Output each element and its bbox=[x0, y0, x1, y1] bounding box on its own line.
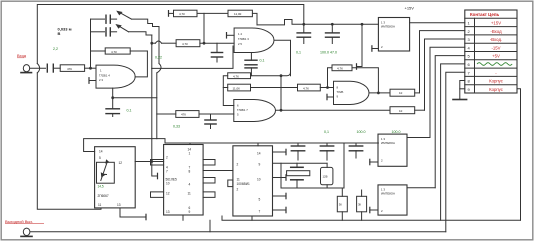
svg-text:2: 2 bbox=[166, 156, 168, 160]
svg-text:1 4: 1 4 bbox=[238, 32, 242, 36]
wire IC U4 right loops to IC U5 bbox=[203, 160, 215, 166]
IC U5 right pin wire to crystal row bbox=[273, 162, 328, 164]
resistor R12 vertical bbox=[357, 196, 367, 212]
wire R3 to gate U1.2 lower input bbox=[199, 113, 234, 115]
wire R8 right lead down to output node bbox=[352, 68, 378, 93]
wire IC U4 to IC U5 mid bbox=[203, 170, 233, 172]
wire R5 right to gate U2.1 output bbox=[251, 72, 291, 76]
resistor R14 top-left with bar stub bbox=[168, 11, 170, 17]
riser hop over y68.4 wire bbox=[157, 64, 161, 73]
wire R4 right to +15 rail jog bbox=[252, 13, 257, 25]
switch S2 arm row2 bbox=[119, 26, 129, 32]
wire regulator U3 output to table pin1 bbox=[410, 22, 465, 24]
voltage regulator U3 bbox=[378, 18, 409, 52]
svg-text:ИМТЕ8ОА: ИМТЕ8ОА bbox=[381, 141, 395, 145]
svg-text:+15V: +15V bbox=[405, 6, 415, 11]
nest wire table pin5 bbox=[435, 56, 465, 188]
resistor R10 output lower bbox=[390, 107, 415, 114]
nest wire table pin2 bbox=[420, 31, 465, 93]
wire Q1 pin12 to riser bbox=[135, 161, 163, 163]
bottom rail middle stub bbox=[209, 220, 211, 232]
resistor R2 row3 bbox=[105, 48, 130, 54]
svg-text:2: 2 bbox=[237, 188, 239, 192]
voltage regulator U7 bbox=[378, 185, 407, 215]
output connector X2 bbox=[23, 228, 30, 235]
svg-text:4: 4 bbox=[189, 183, 191, 187]
gate U1.1 input pin 2 with bar bbox=[89, 80, 96, 82]
svg-text:-Вход.: -Вход. bbox=[490, 37, 502, 42]
frame top line and left side bbox=[37, 5, 304, 64]
gate U2.1 output wire down to feedback row bbox=[274, 40, 291, 75]
svg-text:47К: 47К bbox=[67, 67, 72, 71]
svg-text:0,1: 0,1 bbox=[260, 59, 265, 63]
svg-text:11: 11 bbox=[188, 192, 192, 196]
svg-text:Корпус: Корпус bbox=[489, 87, 504, 92]
wire R7 to gate U2.2 input bbox=[320, 87, 333, 89]
capacitor C1 bbox=[46, 64, 48, 72]
wire switch1 staircase to riser bbox=[131, 19, 159, 63]
wire R3 row from riser bbox=[157, 113, 176, 115]
IC U5 right stub with bar (1) bbox=[273, 177, 287, 179]
IC name row: gate U2.1 (upper middle) bbox=[234, 28, 274, 53]
svg-text:100.0: 100.0 bbox=[357, 130, 366, 134]
svg-text:10: 10 bbox=[166, 182, 170, 186]
svg-text:ТЛ2Б1 4: ТЛ2Б1 4 bbox=[99, 74, 110, 78]
svg-text:Корпус: Корпус bbox=[489, 79, 504, 84]
connector table XP1 bbox=[465, 10, 517, 93]
gate U1.2 bbox=[234, 100, 276, 122]
IC U5 right stub with bar (2) bbox=[273, 195, 287, 197]
regulator U3 pin2 stub with bar bbox=[372, 48, 379, 50]
wire bus to R2 bbox=[91, 50, 106, 52]
resistor R6 (series to U1.2) bbox=[228, 84, 251, 91]
svg-text:+15V: +15V bbox=[491, 21, 501, 26]
transistor block Q1 bbox=[95, 147, 136, 208]
svg-text:0,22: 0,22 bbox=[155, 56, 162, 60]
svg-text:13: 13 bbox=[117, 203, 121, 207]
wire R10 right to riser bbox=[415, 109, 425, 111]
regulator U6 pin stub with bar bbox=[370, 161, 378, 163]
wire switch2 to riser x151.8 bbox=[129, 32, 152, 35]
svg-text:0,33: 0,33 bbox=[173, 125, 180, 129]
cap C6 below y44 wire bbox=[216, 43, 218, 52]
svg-text:-Вход: -Вход bbox=[490, 29, 502, 34]
svg-text:2 3: 2 3 bbox=[99, 78, 103, 82]
svg-text:4,7К: 4,7К bbox=[337, 67, 343, 71]
IC U4 bottom pin down to rail bbox=[182, 215, 184, 220]
svg-text:3К: 3К bbox=[358, 203, 362, 207]
IC U5 right stub with bar (3) bbox=[273, 209, 287, 211]
wire IC U5 top right pin stub bbox=[273, 151, 287, 153]
resistor R9 output upper bbox=[390, 89, 415, 96]
voltage regulator U6 bbox=[378, 134, 407, 166]
+15V rail bbox=[304, 23, 379, 25]
cap C10 under rail bbox=[297, 143, 299, 146]
wire regulator U7 output right bbox=[407, 187, 435, 189]
resistor R8 (feedback of U2.2) bbox=[332, 65, 352, 71]
IC U4 left pin loop upper bbox=[151, 160, 164, 166]
svg-text:5: 5 bbox=[99, 156, 101, 160]
gate U1.2 output long wire to R10 bbox=[276, 109, 391, 111]
svg-text:В: В bbox=[58, 31, 61, 36]
capacitor C2 row1 bbox=[105, 15, 107, 23]
riser row3 down to R3 and rail link bbox=[156, 73, 158, 139]
gate U1.1 bbox=[96, 65, 135, 88]
cap C9 on rail bbox=[331, 24, 333, 33]
IC U4 top pin to rail bbox=[189, 143, 191, 145]
svg-text:1К: 1К bbox=[399, 109, 403, 113]
gate U2.2 lower input stub with bar bbox=[327, 96, 334, 98]
feedback riser gate U1.2 output up to R5 row bbox=[280, 76, 282, 111]
svg-text:14,5: 14,5 bbox=[98, 185, 104, 189]
riser from crystal row down bbox=[280, 163, 282, 188]
frame left lower segment bbox=[37, 73, 101, 209]
svg-text:+5V: +5V bbox=[492, 54, 500, 59]
gate U2.1 input stub with bar bbox=[227, 34, 235, 36]
jog wire to rail corner bbox=[257, 20, 304, 25]
wire y68.4 to gate2 riser bbox=[152, 46, 233, 68]
svg-text:ТЛ2Б1 7: ТЛ2Б1 7 bbox=[237, 108, 248, 112]
left riser joining R5 R6 to gate U1.2 input bbox=[223, 76, 234, 106]
svg-text:Вход: Вход bbox=[17, 53, 27, 58]
svg-text:100.0 47.0: 100.0 47.0 bbox=[320, 51, 337, 55]
wire y188 bottom of cluster bbox=[281, 187, 344, 189]
riser row2 continues to rail link bbox=[151, 68, 153, 138]
svg-text:11: 11 bbox=[98, 203, 102, 207]
riser to R13 wire bbox=[203, 13, 205, 43]
IC U4 left pin loop lower bbox=[151, 192, 164, 198]
riser row2 down to y68.4 bbox=[151, 35, 153, 68]
zener VD1 box bbox=[321, 167, 333, 184]
rail y143 long bbox=[157, 139, 379, 143]
svg-text:2,2: 2,2 bbox=[53, 47, 58, 51]
svg-text:11: 11 bbox=[237, 178, 241, 182]
svg-text:7: 7 bbox=[259, 210, 261, 214]
svg-text:3К: 3К bbox=[339, 203, 343, 207]
wire R13 left lead with hop over riser bbox=[162, 42, 177, 44]
svg-text:4,7К: 4,7К bbox=[182, 42, 188, 46]
resistor R1 bbox=[60, 65, 84, 72]
switch S1 arm row1 bbox=[120, 12, 132, 19]
svg-text:4,7К: 4,7К bbox=[111, 50, 117, 54]
bus up from input node bbox=[90, 19, 92, 68]
resistor R13 (4,7K to U2.1) bbox=[176, 40, 200, 47]
junction dots on rail bbox=[303, 23, 305, 25]
wire R1 to gate U1.1 with node bbox=[85, 67, 96, 69]
svg-text:Контакт Цепь: Контакт Цепь bbox=[470, 12, 500, 17]
svg-text:12: 12 bbox=[119, 161, 123, 165]
svg-text:1006ВИ1: 1006ВИ1 bbox=[237, 182, 251, 186]
svg-text:0,1: 0,1 bbox=[127, 109, 132, 113]
svg-text:ИМТЕ8ОА: ИМТЕ8ОА bbox=[381, 25, 395, 29]
cap C4 below gate U1.1 bbox=[112, 88, 114, 109]
svg-text:7: 7 bbox=[166, 170, 168, 174]
resistor R7 (series to U2.2) bbox=[298, 84, 321, 91]
wire input to cap bbox=[30, 67, 46, 69]
resistor R3 bbox=[176, 111, 199, 118]
wire to cap row2 bbox=[91, 31, 105, 33]
svg-text:ИМТЕ8ОА: ИМТЕ8ОА bbox=[381, 192, 395, 196]
crystal ZQ1 bbox=[296, 163, 298, 167]
svg-text:1: 1 bbox=[189, 152, 191, 156]
rail link wire y138.6 to transistor block bbox=[84, 139, 157, 152]
svg-text:ТЛ2Б1 3: ТЛ2Б1 3 bbox=[238, 37, 249, 41]
svg-text:0,1: 0,1 bbox=[296, 51, 301, 55]
wire A gate1-cap node to riser bbox=[113, 97, 157, 99]
nest wire table pin3 bbox=[425, 39, 465, 110]
svg-text:1К: 1К bbox=[399, 91, 403, 95]
svg-text:2 5: 2 5 bbox=[238, 42, 242, 46]
svg-text:8: 8 bbox=[189, 170, 191, 174]
resistor R4 top (11,0K) bbox=[228, 10, 252, 17]
regulator U7 pin stub with bar bbox=[370, 209, 378, 211]
svg-text:5: 5 bbox=[259, 198, 261, 202]
cap C12 under rail bbox=[355, 143, 357, 146]
wire table pins 8 9 to ground bbox=[460, 81, 465, 100]
svg-text:9: 9 bbox=[259, 163, 261, 167]
cap C7 below gate U2.1 bbox=[250, 53, 252, 61]
IC U4 (561) bbox=[164, 145, 204, 216]
IC U5 (timer) bbox=[233, 146, 273, 216]
IC U5 bottom pin to rail bbox=[251, 216, 253, 220]
wire R8 left lead down to input node bbox=[328, 68, 333, 88]
wire R6 right to R7 bbox=[251, 87, 298, 89]
wire R9 right to riser bbox=[415, 92, 420, 94]
resistor R5 (feedback row) bbox=[228, 73, 251, 79]
svg-text:9: 9 bbox=[189, 210, 191, 214]
svg-text:0,1: 0,1 bbox=[324, 130, 329, 134]
svg-text:14: 14 bbox=[257, 152, 261, 156]
svg-text:12: 12 bbox=[166, 192, 170, 196]
Q1 pin13 stub lower right bbox=[120, 208, 146, 217]
svg-text:-15V: -15V bbox=[491, 45, 500, 50]
svg-text:100.0: 100.0 bbox=[392, 130, 401, 134]
gate U2.2 output wire bbox=[369, 92, 390, 94]
svg-text:11,0К: 11,0К bbox=[233, 86, 241, 90]
Q1 inner element box bbox=[97, 162, 115, 183]
+15V feed stub down with bar bbox=[357, 24, 363, 66]
svg-text:Выходной Вых.: Выходной Вых. bbox=[5, 219, 33, 224]
frame hop over input wire bbox=[37, 64, 39, 73]
capacitor C3 row2 bbox=[105, 28, 107, 36]
resistor R11 vertical bbox=[337, 196, 347, 212]
nest wire table pin4 bbox=[430, 47, 465, 137]
svg-text:4,7К: 4,7К bbox=[303, 86, 309, 90]
feedback riser to gate1 output bbox=[135, 51, 147, 77]
cap C5 below R3 wire bbox=[210, 114, 212, 120]
riser y188 to rail bbox=[343, 143, 345, 188]
svg-text:11,0К: 11,0К bbox=[234, 12, 242, 16]
cap C8 on rail bbox=[303, 24, 305, 33]
IC U5 left stub box bbox=[228, 180, 233, 187]
wire table right side down bbox=[517, 89, 521, 221]
nest wire table pin6 bbox=[441, 64, 465, 220]
wire R2 to gate1 feedback riser bbox=[130, 50, 147, 52]
wire regulator U6 output right bbox=[407, 137, 430, 139]
svg-text:12В: 12В bbox=[323, 175, 328, 179]
svg-text:4,7К: 4,7К bbox=[233, 74, 239, 78]
wire R13 right to gate U2.1 input bbox=[200, 42, 234, 44]
IC U5 top pin to rail bbox=[257, 143, 259, 146]
svg-text:2: 2 bbox=[237, 163, 239, 167]
bottom long rail upper bbox=[222, 216, 521, 220]
svg-text:4,7К: 4,7К bbox=[179, 12, 185, 16]
wire to cap row1 bbox=[91, 18, 105, 20]
bottom long rail output bbox=[30, 231, 446, 233]
Q1 inner arrow bbox=[101, 162, 107, 181]
svg-text:13: 13 bbox=[166, 210, 170, 214]
nest wire table pin7 bbox=[446, 72, 465, 232]
ground below table bbox=[453, 99, 467, 101]
svg-text:ТЛ2Б: ТЛ2Б bbox=[337, 90, 344, 94]
gate U2.2 bbox=[334, 81, 370, 104]
svg-text:47К: 47К bbox=[181, 113, 186, 117]
input connector X1 bbox=[23, 65, 29, 72]
svg-text:10: 10 bbox=[257, 178, 261, 182]
wire from rail-link risers down to Q1 pin stub bbox=[152, 139, 158, 176]
cap C11 under rail bbox=[326, 143, 328, 146]
svg-text:2П6067: 2П6067 bbox=[98, 194, 109, 198]
svg-text:14: 14 bbox=[99, 150, 103, 154]
